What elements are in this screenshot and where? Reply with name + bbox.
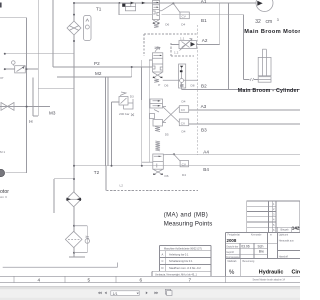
svg-text:D6: D6 [165, 23, 169, 27]
svg-text:2008: 2008 [227, 238, 237, 243]
svg-text:m: m [270, 235, 272, 237]
svg-text:1.2: 1.2 [174, 51, 179, 55]
svg-text:T2: T2 [94, 170, 100, 175]
svg-text:200 bar: 200 bar [119, 112, 130, 116]
svg-text:Benennung: Benennung [243, 261, 255, 263]
svg-text:D6: D6 [164, 83, 168, 87]
svg-text:Maßstab: Maßstab [228, 260, 238, 263]
svg-text:A: A [162, 252, 164, 256]
svg-text:Gepicht-bar: Gepicht-bar [226, 246, 238, 249]
svg-text:T1: T1 [96, 6, 102, 11]
svg-text:D4: D4 [182, 173, 186, 177]
svg-text:M3: M3 [49, 111, 56, 116]
svg-text:P: P [158, 83, 160, 87]
svg-text:C: C [162, 259, 164, 263]
svg-text:L2: L2 [120, 183, 124, 187]
svg-text:6: 6 [140, 277, 143, 282]
svg-text:Freimagasse: Freimagasse [226, 256, 240, 259]
svg-text:142: 142 [292, 226, 300, 231]
svg-text:M2: M2 [95, 71, 102, 76]
svg-text:B2: B2 [201, 84, 207, 89]
svg-text:A1: A1 [201, 0, 207, 4]
svg-text:P2: P2 [94, 61, 100, 66]
svg-text:Stauffner nom -0.3 bis -0.2: Stauffner nom -0.3 bis -0.2 [169, 266, 201, 270]
svg-text:(MA) and (MB): (MA) and (MB) [164, 212, 209, 219]
svg-text:1/1: 1/1 [113, 292, 118, 296]
svg-text:Freigabedat: Freigabedat [228, 234, 241, 237]
svg-text:Biegeb: Biegeb [281, 228, 290, 232]
svg-text:D4: D4 [182, 130, 186, 134]
svg-text:HydraulicCircuit: HydraulicCircuit [259, 269, 300, 275]
svg-text:cm 3: cm 3 [0, 195, 7, 199]
svg-text:M 1: M 1 [0, 150, 5, 154]
svg-text:Sweet Master brush attachm 14: Sweet Master brush attachm 14 [253, 278, 286, 281]
svg-text:7: 7 [189, 277, 192, 282]
svg-text:D4: D4 [181, 23, 185, 27]
svg-text:1.1: 1.1 [180, 36, 185, 40]
svg-text:D: D [162, 266, 164, 270]
svg-text:B4: B4 [203, 167, 209, 172]
svg-text:Measuring Points: Measuring Points [164, 220, 213, 227]
svg-text:B1: B1 [201, 18, 207, 23]
svg-text:Umbauta, Nennweight, MA,n'ols: Umbauta, Nennweight, MA,n'ols 45_1 [155, 273, 197, 276]
svg-text:D3: D3 [130, 94, 134, 98]
svg-text:Lightcont: Lightcont [279, 233, 289, 236]
svg-text:D6: D6 [165, 174, 169, 178]
svg-text:4: 4 [38, 277, 41, 282]
svg-text:Bre: Bre [259, 250, 264, 254]
svg-text:37: 37 [0, 76, 4, 80]
svg-text:Maschine Außenbürste 06/02 (: Maschine Außenbürste 06/02 (37) [164, 247, 202, 250]
svg-text:A4: A4 [203, 149, 209, 154]
svg-text:5: 5 [88, 277, 91, 282]
svg-text:Sch: Sch [258, 245, 264, 249]
svg-text:Anleitung ba 0.1: Anleitung ba 0.1 [169, 252, 189, 256]
svg-text:A2: A2 [202, 38, 208, 43]
svg-text:B3: B3 [201, 128, 207, 133]
svg-text:Main Broom - Cylinder: Main Broom - Cylinder [238, 88, 299, 94]
svg-text:Geprüft: Geprüft [226, 251, 234, 254]
svg-text:D8: D8 [191, 83, 195, 87]
svg-text:Haselorff: Haselorff [279, 256, 289, 259]
svg-text:Main Broom Motor: Main Broom Motor [244, 29, 300, 35]
svg-text:Kennzade: Kennzade [251, 235, 262, 237]
svg-text:%: % [229, 270, 235, 276]
svg-text:D4: D4 [182, 100, 186, 104]
svg-text:A3: A3 [201, 104, 207, 109]
svg-text:Herausabt aus: Herausabt aus [279, 240, 295, 243]
svg-text:03.06: 03.06 [241, 245, 250, 249]
svg-text:D5: D5 [165, 132, 169, 136]
svg-text:Schaltanmig bis 0.1: Schaltanmig bis 0.1 [169, 259, 193, 263]
svg-text:H: H [29, 119, 32, 124]
